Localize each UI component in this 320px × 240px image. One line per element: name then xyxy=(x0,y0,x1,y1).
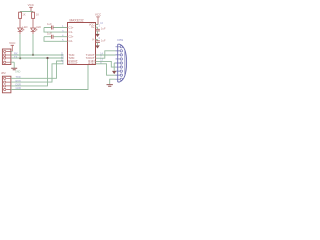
svg-text:1uF: 1uF xyxy=(101,27,106,31)
svg-text:JP2: JP2 xyxy=(1,71,6,75)
wire JP2 pin2 to R2OUT xyxy=(11,64,64,82)
svg-text:MAX3232: MAX3232 xyxy=(70,19,84,23)
wire LED1 down to T2IN net xyxy=(19,31,21,34)
wire T1IN row xyxy=(14,54,64,56)
ground arrow (C4) xyxy=(95,45,99,48)
resistor R1 xyxy=(19,12,22,18)
svg-text:VCC: VCC xyxy=(95,13,102,17)
capacitor C4 (V-) xyxy=(97,40,99,41)
supply VCC (pin16) xyxy=(95,13,102,25)
svg-text:R2IN: R2IN xyxy=(88,62,94,66)
wire VCC split to R1/R2 xyxy=(20,11,33,14)
pin stubs JP1 xyxy=(6,51,11,62)
svg-text:1K: 1K xyxy=(36,12,39,16)
wire JP1 gnd down xyxy=(13,62,15,68)
supply VCC (top, feeds R1/R2) xyxy=(28,3,35,11)
LED LED1 xyxy=(18,28,25,31)
svg-text:GND: GND xyxy=(15,71,21,74)
svg-text:C1-: C1- xyxy=(69,30,73,34)
connector JP1 xyxy=(2,49,11,65)
junction pin3/T2IN xyxy=(46,57,48,59)
pin stubs U1 right xyxy=(96,25,99,40)
wire JP2 pin4 GND to IC xyxy=(11,65,88,90)
DB9 pin stubs xyxy=(116,47,121,79)
svg-text:DB9: DB9 xyxy=(117,38,123,42)
svg-text:LED: LED xyxy=(23,25,28,29)
svg-text:VCC: VCC xyxy=(9,41,16,45)
wire R1 to LED1 xyxy=(19,18,21,28)
ground arrow (C3) xyxy=(95,34,99,37)
wire R1IN to DB9 pin6 xyxy=(96,61,116,67)
svg-text:V+: V+ xyxy=(91,25,95,29)
pin names U1 right xyxy=(86,22,95,65)
svg-text:V-: V- xyxy=(92,37,95,41)
wire T2OUT to DB9 pin2 xyxy=(96,51,116,58)
wire T1OUT to DB9 pin3 xyxy=(96,54,116,56)
wire R2IN to DB9 pin8 xyxy=(96,64,116,75)
ground GND1 xyxy=(11,68,17,70)
svg-text:LED: LED xyxy=(36,25,41,29)
resistor R2 xyxy=(32,12,35,18)
svg-text:C2-: C2- xyxy=(69,39,73,43)
wire JP2 pin3 to T2IN net xyxy=(11,58,48,86)
ground arrow (DB9 pin5) xyxy=(112,71,116,74)
pin stubs JP2 xyxy=(6,78,11,89)
svg-text:1uF: 1uF xyxy=(101,38,106,42)
svg-text:R2OUT: R2OUT xyxy=(69,62,78,66)
supply VCC (above JP1) xyxy=(9,41,16,51)
junction LED1/T2IN xyxy=(19,57,21,59)
wire T2IN row xyxy=(14,57,64,59)
ground GND2 xyxy=(107,85,113,87)
wire DB9 pin5 to gnd arrow xyxy=(114,63,115,71)
capacitor C3 (V+) xyxy=(97,27,99,29)
pin names U1 left xyxy=(69,25,78,65)
svg-text:1uF: 1uF xyxy=(47,22,52,26)
svg-text:C1+: C1+ xyxy=(69,25,74,29)
junction LED2/T1IN xyxy=(32,54,34,56)
wire LED2 down to T1IN net xyxy=(32,31,34,34)
pin numbers U1 left top xyxy=(61,26,64,64)
LED LED2 xyxy=(31,28,38,31)
pin stubs U1 left xyxy=(64,28,68,42)
svg-text:1K: 1K xyxy=(22,12,25,16)
wire R2 to LED2 xyxy=(32,18,34,28)
wire JP2 pin1 to R1OUT xyxy=(11,61,64,78)
svg-text:VCC: VCC xyxy=(28,3,35,7)
svg-text:C2+: C2+ xyxy=(69,35,74,39)
pin numbers U1 right xyxy=(99,23,104,64)
wire DB9 pin9 to ground xyxy=(110,79,116,84)
